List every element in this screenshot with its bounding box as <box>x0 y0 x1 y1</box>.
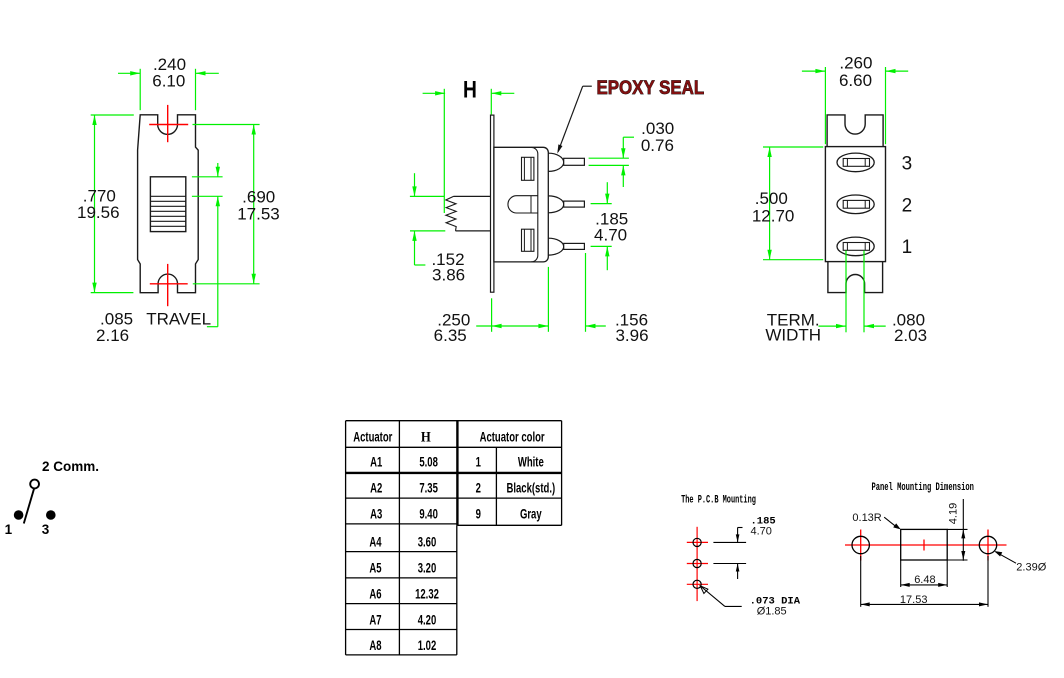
svg-text:17.53: 17.53 <box>900 594 928 606</box>
svg-text:.260: .260 <box>839 53 872 72</box>
svg-text:12.32: 12.32 <box>415 586 439 602</box>
panel mounting: dimension 6.48 (cutout width) <box>901 560 948 587</box>
table row A1 <box>370 453 544 469</box>
svg-text:0.76: 0.76 <box>641 136 674 155</box>
svg-text:2 Comm.: 2 Comm. <box>42 459 99 474</box>
dimension .260 / 6.60 (rear width) <box>802 53 908 144</box>
svg-text:Panel Mounting Dimension: Panel Mounting Dimension <box>871 481 973 494</box>
svg-text:17.53: 17.53 <box>237 204 280 223</box>
svg-text:6.35: 6.35 <box>434 326 467 345</box>
table row A4 <box>369 534 436 550</box>
schematic: throw contact dot 3 <box>46 510 56 520</box>
schematic: label 2 Comm. <box>42 459 99 474</box>
svg-text:A5: A5 <box>369 560 381 576</box>
svg-text:3.96: 3.96 <box>615 326 648 345</box>
panel mounting: rectangular cutout <box>901 529 948 560</box>
svg-text:2: 2 <box>476 479 482 495</box>
svg-text:2.03: 2.03 <box>894 326 927 345</box>
rear view: body <box>825 147 885 262</box>
dimension H (actuator height) <box>423 89 515 213</box>
PCB mounting: hole 3 <box>693 580 701 588</box>
schematic: label 3 <box>42 522 50 537</box>
svg-text:The P.C.B Mounting: The P.C.B Mounting <box>681 493 756 506</box>
rear view: terminal 1 <box>837 237 874 256</box>
svg-text:4.70: 4.70 <box>594 225 627 244</box>
actuator table grid <box>346 421 562 655</box>
rear view: terminal number 3 <box>902 153 913 174</box>
table row A7 <box>369 611 436 627</box>
rear view: top mounting ear with notch <box>827 115 883 147</box>
panel mounting: title <box>871 481 973 494</box>
svg-text:Gray: Gray <box>520 505 542 521</box>
dimension TERM. WIDTH .080 / 2.03 <box>765 251 927 346</box>
svg-text:3.20: 3.20 <box>418 560 437 576</box>
svg-text:4.70: 4.70 <box>751 526 772 538</box>
svg-text:1: 1 <box>902 237 913 258</box>
svg-text:2: 2 <box>902 195 913 216</box>
svg-text:EPOXY SEAL: EPOXY SEAL <box>597 77 705 98</box>
panel mounting: left hole circle <box>852 536 869 553</box>
svg-text:1.02: 1.02 <box>418 637 437 653</box>
svg-text:3: 3 <box>902 153 913 174</box>
svg-text:9.40: 9.40 <box>419 505 438 521</box>
table row A6 <box>369 586 439 602</box>
side view: switch case body <box>494 147 548 262</box>
panel mounting: dimension 17.53 (hole spacing) <box>861 556 988 607</box>
table row A3 <box>370 505 542 521</box>
svg-text:A4: A4 <box>369 534 381 550</box>
dimension .250 / 6.35 (body depth) <box>434 267 549 345</box>
PCB mounting: hole 2 <box>693 559 701 567</box>
side view: terminal 1 dome and pin <box>548 238 584 255</box>
table row A2 <box>370 479 555 495</box>
front view: switch body outline <box>138 115 199 293</box>
svg-text:A2: A2 <box>370 479 382 495</box>
svg-text:Actuator: Actuator <box>353 429 392 445</box>
rear view: terminal number 1 <box>902 237 913 258</box>
rear view: terminal number 2 <box>902 195 913 216</box>
svg-text:12.70: 12.70 <box>752 207 795 226</box>
svg-text:A7: A7 <box>369 611 381 627</box>
side view: terminal 3 epoxy dome and pin <box>548 153 584 171</box>
svg-text:1: 1 <box>476 453 482 469</box>
svg-text:Actuator color: Actuator color <box>480 429 545 445</box>
svg-text:WIDTH: WIDTH <box>765 325 821 344</box>
panel mounting: right hole circle <box>979 536 996 553</box>
schematic: throw contact dot 1 <box>14 510 24 520</box>
schematic: common terminal circle (pole 2) <box>30 480 39 489</box>
dimension .085 / 2.16 TRAVEL <box>96 163 223 345</box>
svg-text:2.39Ø: 2.39Ø <box>1016 562 1046 574</box>
PCB mounting: dimension .185 / 4.70 hole pitch <box>713 515 775 579</box>
dimension .690 / 17.53 (hole-to-hole) <box>193 125 280 284</box>
svg-text:TRAVEL: TRAVEL <box>146 310 211 329</box>
panel mounting: dimension 4.19 (cutout height) <box>947 499 967 561</box>
side view: H label <box>463 76 477 104</box>
svg-text:H: H <box>421 430 431 446</box>
dimension .770 / 19.56 (front overall height) <box>77 115 134 293</box>
EPOXY SEAL label and leader <box>557 77 704 153</box>
panel mounting: corner radius callout 0.13R <box>852 512 900 529</box>
svg-text:A3: A3 <box>370 505 382 521</box>
svg-text:7.35: 7.35 <box>419 479 438 495</box>
front view: top mounting hole centerline (red) <box>149 105 188 142</box>
svg-text:Black(std.): Black(std.) <box>506 479 555 495</box>
table row A8 <box>369 637 436 653</box>
svg-text:4.19: 4.19 <box>948 503 960 524</box>
table header: Actuator | H | Actuator color <box>353 429 545 446</box>
svg-text:9: 9 <box>476 505 482 521</box>
panel mounting: hole diameter callout 2.39&#216; <box>994 551 1047 574</box>
rear view: terminal 3 <box>837 153 874 172</box>
svg-text:2.16: 2.16 <box>96 326 129 345</box>
svg-text:5.08: 5.08 <box>419 453 438 469</box>
side view: common terminal capsule <box>508 196 538 213</box>
svg-text:0.13R: 0.13R <box>852 512 881 524</box>
rear view: bottom mounting ear with notch <box>828 262 883 293</box>
table row A5 <box>369 560 436 576</box>
front view: actuator knob with serrations <box>150 177 185 232</box>
dimension .030 / 0.76 (terminal thickness) <box>589 119 675 187</box>
dimension .185 / 4.70 (terminal spacing, side view) <box>591 182 629 270</box>
side view: upper terminal slot <box>522 157 534 180</box>
svg-text:6.60: 6.60 <box>839 71 872 90</box>
svg-text:White: White <box>518 453 544 469</box>
side view: terminal 2 dome and pin <box>548 196 584 213</box>
svg-text:.500: .500 <box>755 189 788 208</box>
front view: bottom mounting hole centerline (red) <box>150 264 188 306</box>
svg-text:19.56: 19.56 <box>77 203 120 222</box>
PCB mounting: title <box>681 493 756 506</box>
svg-text:4.20: 4.20 <box>418 611 437 627</box>
dimension .240 / 6.10 (front width) <box>118 55 219 110</box>
svg-text:3.86: 3.86 <box>432 265 465 284</box>
dimension .156 / 3.96 (terminal length) <box>586 253 649 345</box>
rear view: terminal 2 <box>837 195 874 214</box>
side view: mounting flange (edge-on) <box>491 115 494 292</box>
schematic: label 1 <box>5 522 13 537</box>
side view: lower terminal slot <box>522 229 534 251</box>
dimension .152 / 3.86 (actuator width) <box>410 173 465 284</box>
svg-text:6.10: 6.10 <box>152 72 185 91</box>
svg-text:1: 1 <box>5 522 13 537</box>
PCB mounting: hole 1 <box>693 538 701 546</box>
svg-text:3.60: 3.60 <box>418 534 437 550</box>
svg-text:3: 3 <box>42 522 50 537</box>
panel mounting: horizontal centerline (red) <box>845 530 1007 561</box>
svg-text:H: H <box>463 76 477 104</box>
PCB mounting: centerline (red) <box>687 527 708 601</box>
side view: actuator handle with break zigzag <box>446 196 491 231</box>
schematic: switch lever wire <box>24 489 34 524</box>
svg-text:A1: A1 <box>370 453 382 469</box>
PCB mounting: hole diameter callout .073 DIA <box>700 586 801 618</box>
svg-text:A8: A8 <box>369 637 381 653</box>
svg-text:6.48: 6.48 <box>914 574 935 586</box>
dimension .500 / 12.70 (body height) <box>752 147 823 260</box>
svg-text:A6: A6 <box>369 586 381 602</box>
svg-text:Ø1.85: Ø1.85 <box>757 605 787 617</box>
